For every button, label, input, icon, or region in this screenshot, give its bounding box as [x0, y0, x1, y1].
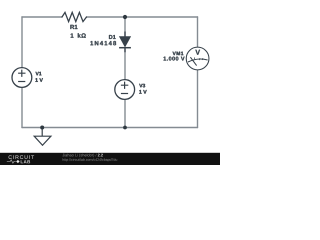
wire bottom — [22, 127, 198, 129]
wire right upper — [197, 17, 199, 47]
diode D1 — [119, 32, 131, 53]
wire top left segment — [22, 16, 62, 18]
footer version 2.2 — [98, 154, 103, 157]
value 1N4148 — [90, 41, 116, 45]
footer logo CIRCUIT — [9, 155, 35, 159]
value 1.000 V — [164, 57, 185, 61]
label V3 — [139, 84, 145, 88]
label D1 — [109, 35, 116, 39]
ground — [34, 128, 51, 146]
wire right lower — [197, 70, 199, 128]
junction node bottom (V3/bottom wire) — [123, 126, 127, 130]
label VM1 — [173, 52, 184, 55]
footer credit line 1 — [62, 154, 96, 158]
value 1 kOhm — [71, 33, 74, 37]
footer logo trace+diamond — [7, 160, 16, 163]
label V1 — [36, 72, 42, 75]
value 1 V — [35, 78, 42, 82]
wire left upper — [21, 17, 23, 68]
voltmeter V glyph — [195, 50, 200, 55]
voltage source V3 — [115, 80, 135, 100]
footer bar — [0, 153, 220, 165]
footer url line 2 — [63, 158, 118, 161]
wire middle mid (diode to V3) — [124, 49, 126, 80]
value 1 V (V3) — [139, 90, 146, 94]
junction node ground — [40, 126, 44, 130]
voltage source V1 — [12, 68, 32, 88]
wire top right segment — [87, 16, 198, 18]
footer logo LAB — [21, 160, 30, 163]
resistor R1 — [62, 12, 87, 21]
junction node top (diode/top wire) — [123, 15, 127, 19]
wire left lower — [21, 87, 23, 127]
voltmeter VM1 — [186, 47, 209, 70]
wire middle lower (below V3) — [124, 99, 126, 127]
label R1 — [70, 25, 77, 29]
wire middle upper (above diode) — [124, 17, 126, 36]
